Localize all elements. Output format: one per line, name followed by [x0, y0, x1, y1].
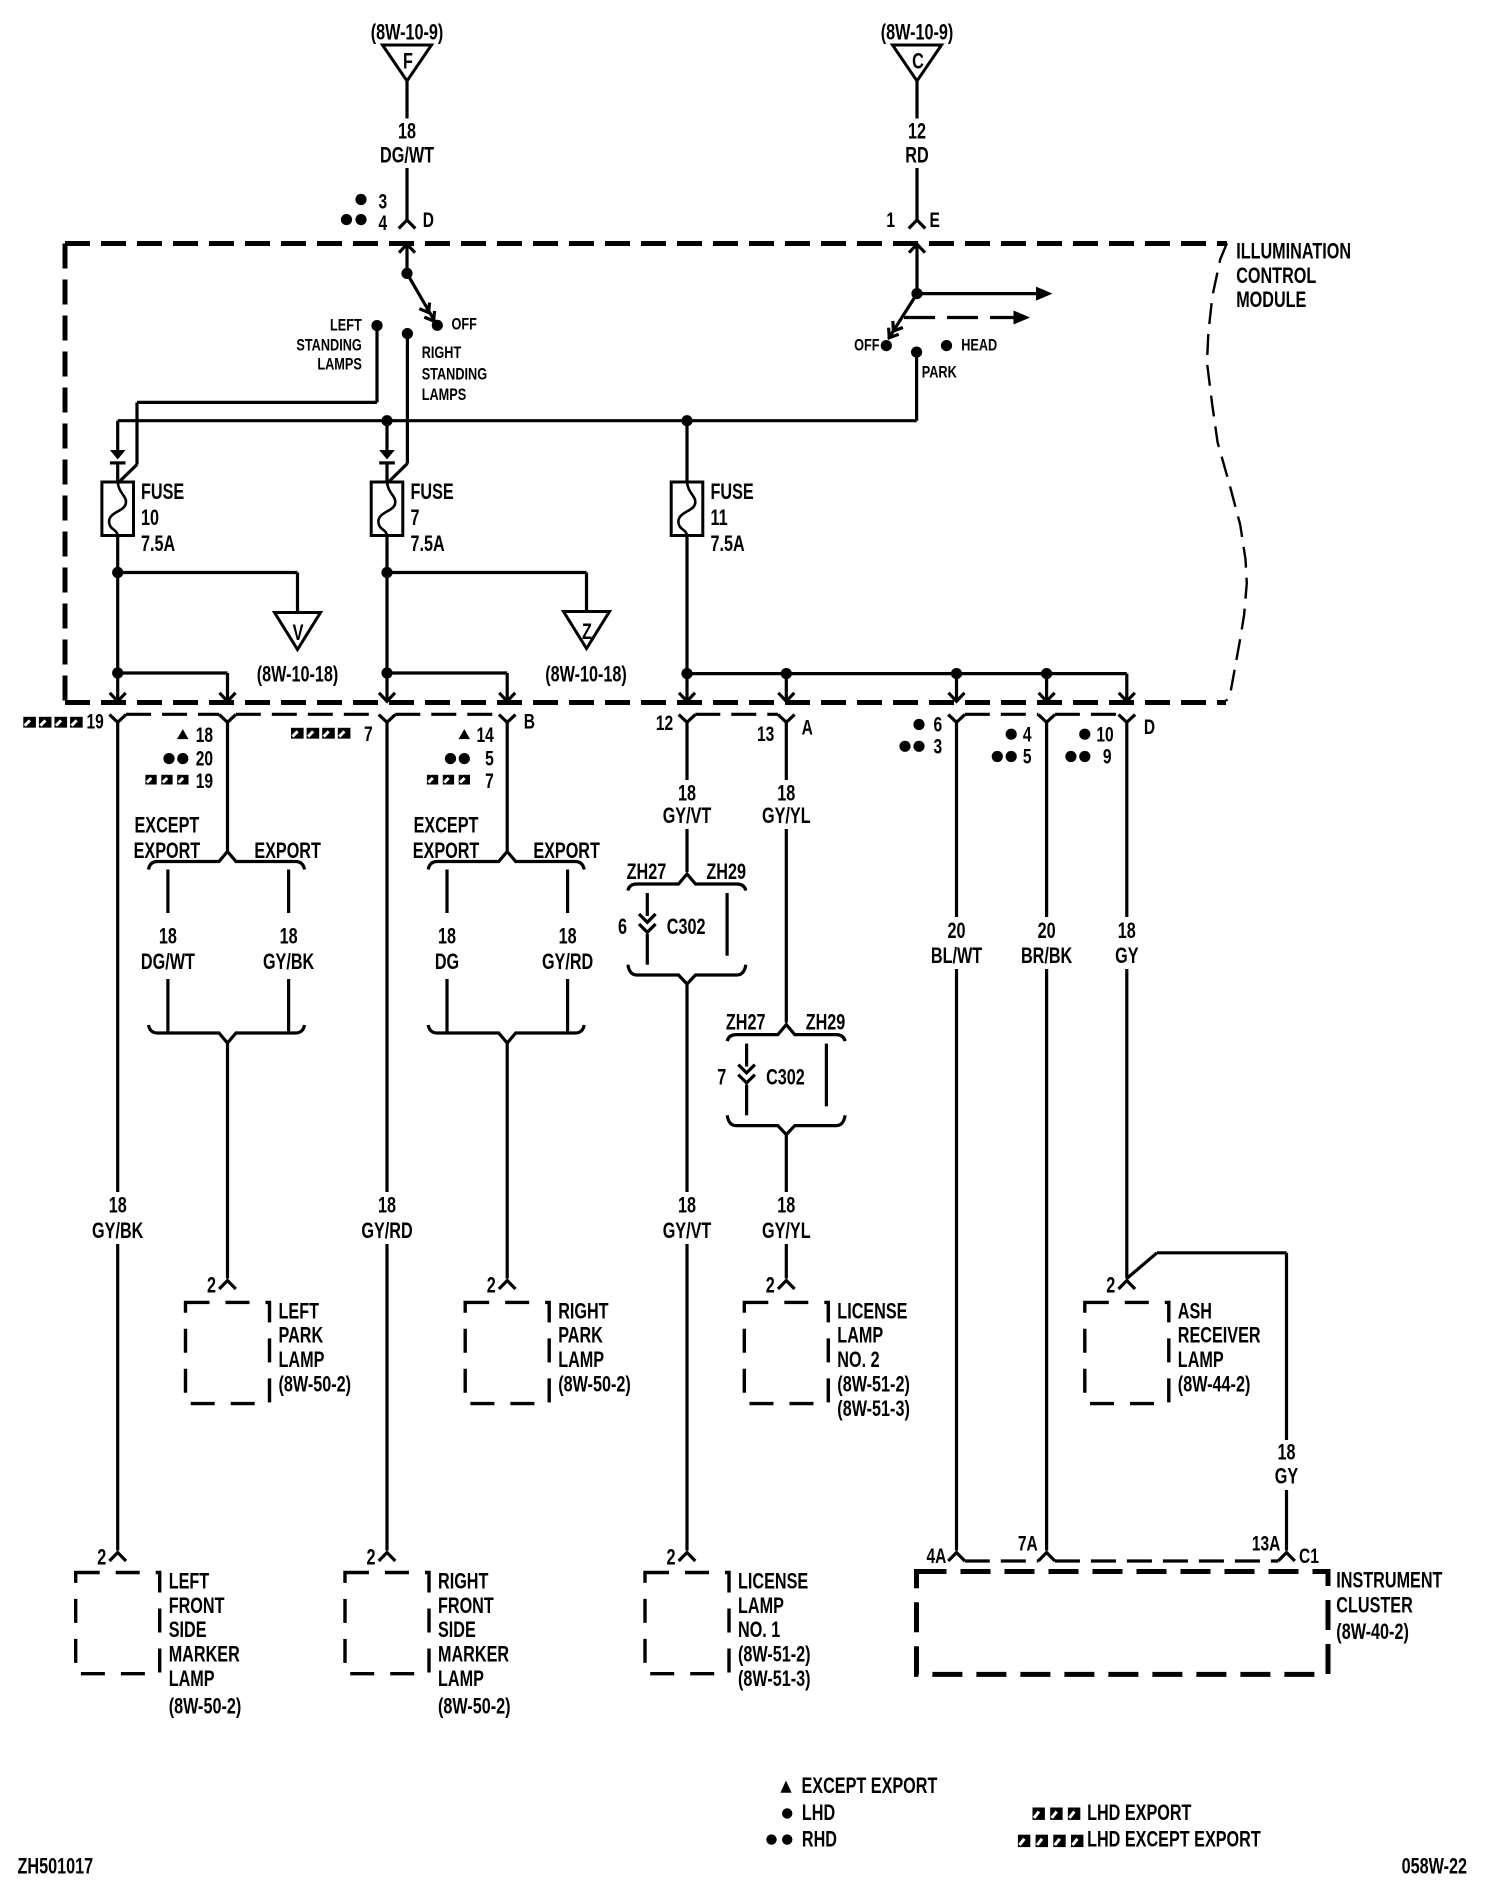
branch to connector Z: [387, 573, 587, 612]
label 20 BR/BK: [1021, 918, 1072, 968]
svg-text:18: 18: [1118, 918, 1136, 943]
svg-text:18: 18: [196, 723, 213, 747]
svg-text:PARK: PARK: [922, 364, 957, 382]
branch wire to export arrow (right): [387, 671, 507, 674]
wire DG/WT to connector D: [405, 168, 408, 219]
svg-text:18: 18: [1277, 1440, 1295, 1465]
wire 12 label to brace: [685, 829, 688, 872]
svg-text:CONTROL: CONTROL: [1236, 263, 1316, 288]
legend LHD: [782, 1800, 835, 1825]
arrow out BL/WT: [949, 674, 965, 702]
ZH27 wire C302-2: [745, 1044, 748, 1067]
cluster bar 4A-7A: [965, 1559, 1039, 1562]
EXCEPT EXPORT label 2 (right): [413, 838, 480, 863]
svg-text:EXCEPT EXPORT: EXCEPT EXPORT: [802, 1773, 938, 1798]
C302 merge brace C302-2: [727, 1115, 845, 1134]
svg-text:HEAD: HEAD: [961, 337, 997, 355]
OFF contact (left): [432, 316, 477, 334]
svg-text:GY/BK: GY/BK: [92, 1219, 143, 1244]
connector 7A: [1018, 1531, 1055, 1561]
connector bar BLWT to BRBK: [965, 713, 1039, 716]
pin 2 connector LICENSE LAMP NO 2: [766, 1273, 795, 1298]
branch to connector V: [118, 573, 298, 613]
symbols 10 / 9 (GY): [1065, 722, 1113, 768]
ZH27 label C302-2: [726, 1010, 766, 1035]
label 18 GY (D wire): [1115, 918, 1138, 968]
svg-text:ASH: ASH: [1178, 1299, 1212, 1324]
connector C from (8W-10-9): [881, 20, 954, 81]
LEFT STANDING LAMPS contact: [296, 317, 382, 374]
legend RHD: [766, 1827, 837, 1852]
EXCEPT EXPORT label (right): [414, 813, 479, 838]
svg-text:2: 2: [207, 1273, 216, 1298]
connector V to (8W-10-18): [257, 613, 339, 688]
svg-text:2: 2: [366, 1545, 375, 1570]
EXCEPT EXPORT label (left): [135, 813, 200, 838]
fuse 10 7.5A: [102, 479, 184, 556]
svg-text:OFF: OFF: [452, 316, 477, 334]
interior bus to D: [687, 672, 1127, 675]
arrow out export-right: [499, 673, 515, 701]
wire B down upper: [385, 722, 388, 1192]
svg-text:058W-22: 058W-22: [1402, 1854, 1467, 1879]
svg-text:ZH29: ZH29: [706, 859, 746, 884]
svg-text:EXPORT: EXPORT: [254, 838, 321, 863]
svg-text:DG/WT: DG/WT: [141, 950, 195, 975]
except-export wire upper (left): [166, 870, 169, 914]
wire label 12 RD: [905, 119, 928, 168]
C302 splice arrow C302-1: [639, 914, 656, 932]
arrow out B: [379, 673, 395, 701]
wire A down to label: [785, 722, 788, 780]
svg-text:EXCEPT: EXCEPT: [414, 813, 479, 838]
svg-text:(8W-51-3): (8W-51-3): [837, 1396, 910, 1421]
svg-text:LAMP: LAMP: [169, 1667, 215, 1692]
arrow out BR/BK: [1039, 674, 1055, 702]
connector 13A: [1252, 1531, 1295, 1561]
svg-text:12: 12: [656, 711, 673, 735]
svg-text:(8W-10-18): (8W-10-18): [545, 662, 627, 687]
split brace (left): [149, 852, 305, 870]
connector A: [778, 715, 813, 739]
switch pivot node left: [401, 268, 412, 279]
connector BL/WT row2: [948, 715, 965, 723]
label 18 GY/BK: [92, 1193, 143, 1244]
svg-text:C302: C302: [766, 1065, 805, 1090]
svg-text:LHD: LHD: [802, 1800, 835, 1825]
arrow out D: [1119, 674, 1135, 702]
svg-text:18: 18: [398, 119, 416, 144]
svg-text:FUSE: FUSE: [411, 479, 454, 504]
component reference ASH RECEIVER LAMP: [1178, 1372, 1251, 1397]
svg-text:LAMP: LAMP: [837, 1323, 883, 1348]
ZH29 wire C302-2: [825, 1044, 828, 1107]
legend except export: [780, 1773, 937, 1798]
svg-text:ILLUMINATION: ILLUMINATION: [1236, 239, 1351, 264]
svg-text:2: 2: [487, 1273, 496, 1298]
C302 pin number C302-1: [618, 914, 627, 939]
label 18 GY/YL lower: [762, 1193, 811, 1244]
svg-text:20: 20: [947, 918, 965, 943]
wire RD to connector E: [915, 168, 918, 219]
svg-text:RHD: RHD: [802, 1827, 837, 1852]
svg-text:GY/BK: GY/BK: [263, 950, 314, 975]
svg-text:(8W-51-2): (8W-51-2): [837, 1372, 910, 1397]
wire BL/WT upper: [955, 722, 958, 917]
svg-text:4: 4: [1023, 722, 1032, 746]
instrument cluster label: [1336, 1568, 1442, 1645]
component box ASH RECEIVER LAMP: [1085, 1302, 1169, 1403]
svg-text:ZH27: ZH27: [726, 1010, 766, 1035]
EXCEPT EXPORT label 2 (left): [134, 838, 201, 863]
wire export connector down (left): [226, 722, 229, 851]
pin 2 connector RIGHT PARK LAMP: [487, 1273, 516, 1298]
svg-text:7A: 7A: [1018, 1531, 1038, 1555]
illumination control module top border: [65, 241, 1227, 246]
svg-text:MARKER: MARKER: [438, 1642, 509, 1667]
svg-text:B: B: [524, 709, 535, 733]
svg-text:7.5A: 7.5A: [141, 532, 175, 557]
illumination control module label: [1236, 239, 1351, 313]
component reference LICENSE LAMP NO 2: [837, 1372, 910, 1422]
svg-text:2: 2: [97, 1545, 106, 1570]
svg-text:1: 1: [886, 208, 895, 232]
ZH27 wire lower C302-2: [745, 1085, 748, 1116]
connector bar BRBK to D: [1055, 713, 1119, 716]
svg-text:(8W-10-9): (8W-10-9): [371, 20, 444, 45]
connector bar 19 to export: [126, 713, 219, 716]
svg-text:7.5A: 7.5A: [711, 532, 745, 557]
wire B down lower: [385, 1244, 388, 1551]
svg-text:9: 9: [1103, 744, 1112, 768]
svg-text:13A: 13A: [1252, 1531, 1281, 1555]
label 20 BL/WT: [931, 918, 982, 968]
symbols LHD EXPORT 7: [291, 722, 373, 746]
svg-text:GY/VT: GY/VT: [663, 1219, 712, 1244]
svg-text:18: 18: [559, 924, 577, 949]
svg-text:7.5A: 7.5A: [411, 532, 445, 557]
svg-text:DG/WT: DG/WT: [380, 143, 434, 168]
wire 12 down to label: [685, 722, 688, 780]
svg-text:LAMP: LAMP: [1178, 1348, 1224, 1373]
merge brace (right): [428, 1025, 584, 1043]
cluster bar 7A-13A: [1055, 1559, 1278, 1562]
connector BR/BK row2: [1038, 715, 1055, 723]
wire GYYL to license lamp 2: [785, 1244, 788, 1279]
PARK contact: [911, 347, 957, 382]
svg-text:(8W-50-2): (8W-50-2): [169, 1694, 242, 1719]
fuse 7 7.5A: [371, 479, 453, 556]
wire RIGHT standing lamps to fuse 7: [389, 334, 407, 482]
wire fuse 11 output: [685, 536, 688, 674]
svg-text:C1: C1: [1299, 1544, 1319, 1568]
svg-text:GY: GY: [1115, 944, 1138, 969]
component box RIGHT PARK LAMP: [465, 1302, 549, 1403]
svg-text:V: V: [293, 620, 304, 645]
ash loop down lower: [1285, 1490, 1288, 1551]
ash loop down upper: [1285, 1253, 1288, 1440]
ZH27 wire C302-1: [646, 893, 649, 916]
wire GYVT to license lamp 1: [685, 1244, 688, 1551]
svg-text:SIDE: SIDE: [169, 1618, 207, 1643]
label 18 GY/RD: [361, 1193, 412, 1244]
svg-text:GY/YL: GY/YL: [762, 803, 811, 828]
export wire upper (right): [566, 870, 569, 914]
EXPORT label (left): [254, 838, 321, 863]
svg-text:18: 18: [159, 924, 177, 949]
component reference LEFT PARK LAMP: [279, 1372, 352, 1397]
component name LICENSE LAMP NO 2: [837, 1299, 907, 1373]
svg-text:ZH29: ZH29: [806, 1010, 846, 1035]
component name LICENSE LAMP NO 1: [738, 1569, 808, 1643]
arrow out 19: [110, 673, 126, 701]
svg-text:18: 18: [109, 1193, 127, 1218]
svg-text:(8W-10-18): (8W-10-18): [257, 662, 339, 687]
illumination control module left border: [63, 244, 68, 703]
component box RIGHT FRONT SIDE MARKER LAMP: [345, 1573, 429, 1674]
component reference RIGHT FRONT SIDE MARKER LAMP: [438, 1694, 511, 1719]
svg-text:12: 12: [908, 119, 926, 144]
connector export-left: [219, 715, 236, 723]
except-export wire upper (right): [445, 870, 448, 914]
legend LHD EXCEPT EXPORT: [1018, 1827, 1261, 1852]
svg-text:(8W-51-3): (8W-51-3): [738, 1667, 811, 1692]
wire bus to fuse 11: [685, 421, 688, 483]
svg-text:RIGHT: RIGHT: [558, 1299, 608, 1324]
component name RIGHT PARK LAMP: [558, 1299, 608, 1373]
ZH27/ZH29 brace C302-1: [628, 874, 746, 891]
svg-text:GY: GY: [1275, 1464, 1298, 1489]
wire GYVT below C302: [685, 984, 688, 1192]
ash loop horizontal: [1157, 1251, 1287, 1254]
svg-text:GY/RD: GY/RD: [542, 950, 593, 975]
connector D row2: [1119, 715, 1156, 739]
connector bar export to B: [236, 713, 379, 716]
svg-text:20: 20: [196, 746, 213, 770]
svg-text:LAMP: LAMP: [738, 1593, 784, 1618]
except-export wire lower (right): [445, 979, 448, 1033]
component reference LICENSE LAMP NO 1: [738, 1642, 811, 1692]
arrow out A: [778, 674, 794, 702]
merged wire down (right): [506, 1043, 509, 1279]
svg-text:5: 5: [1023, 744, 1032, 768]
symbols 6 / 3 (BL/WT): [899, 712, 942, 758]
C302 label C302-2: [766, 1065, 805, 1090]
svg-text:11: 11: [711, 506, 728, 531]
wire fuse 7 output: [385, 536, 388, 674]
svg-text:PARK: PARK: [558, 1323, 603, 1348]
label 18 GY/VT upper: [663, 781, 712, 829]
svg-text:18: 18: [678, 1193, 696, 1218]
svg-text:DG: DG: [435, 950, 459, 975]
svg-text:(8W-40-2): (8W-40-2): [1336, 1620, 1409, 1645]
component box LICENSE LAMP NO 1: [645, 1573, 729, 1674]
wire BL/WT lower: [955, 969, 958, 1551]
illumination control module bottom border: [65, 700, 1226, 705]
svg-text:GY/VT: GY/VT: [663, 803, 712, 828]
svg-text:FRONT: FRONT: [438, 1593, 494, 1618]
svg-text:20: 20: [1038, 918, 1056, 943]
EXPORT label (right): [533, 838, 600, 863]
svg-text:GY/YL: GY/YL: [762, 1219, 811, 1244]
svg-text:A: A: [802, 715, 813, 739]
label 18 GY/YL upper: [762, 781, 811, 829]
connector 4A: [927, 1544, 965, 1568]
wire GYYL below C302: [785, 1134, 788, 1192]
ZH27 wire lower C302-1: [646, 934, 649, 965]
label 18 GY (loop): [1275, 1440, 1298, 1489]
svg-text:6: 6: [618, 914, 627, 939]
split brace (right): [428, 852, 584, 870]
svg-text:CLUSTER: CLUSTER: [1336, 1593, 1412, 1618]
component name LEFT FRONT SIDE MARKER LAMP: [169, 1569, 240, 1692]
component name LEFT PARK LAMP: [279, 1299, 325, 1373]
wire A label to brace: [785, 829, 788, 1023]
svg-text:LICENSE: LICENSE: [837, 1299, 907, 1324]
svg-text:2: 2: [1106, 1273, 1115, 1298]
ZH29 wire C302-1: [725, 893, 728, 956]
switch arrow into module at E: [909, 244, 925, 293]
ZH27 label C302-1: [627, 859, 667, 884]
pin 1 label: [886, 208, 895, 232]
arrow out export-left: [220, 673, 236, 701]
svg-text:7: 7: [485, 768, 494, 792]
svg-text:RIGHT: RIGHT: [438, 1569, 488, 1594]
connector export-B: [499, 709, 535, 733]
legend LHD EXPORT: [1033, 1800, 1192, 1825]
svg-text:LAMP: LAMP: [558, 1348, 604, 1373]
dashed arrow right (park feed): [904, 311, 1030, 325]
solid arrow right (head feed): [917, 287, 1053, 301]
export wire lower (right): [566, 979, 569, 1033]
component reference LEFT FRONT SIDE MARKER LAMP: [169, 1694, 242, 1719]
component name ASH RECEIVER LAMP: [1178, 1299, 1261, 1373]
diode into fuse 7: [379, 421, 395, 483]
ZH27/ZH29 brace C302-2: [727, 1025, 845, 1042]
HEAD contact: [941, 337, 997, 355]
svg-text:5: 5: [485, 746, 494, 770]
svg-text:18: 18: [678, 781, 696, 806]
ZH29 label C302-1: [706, 859, 746, 884]
connector 12: [656, 711, 695, 735]
svg-text:RD: RD: [905, 143, 928, 168]
component box LEFT FRONT SIDE MARKER LAMP: [76, 1573, 160, 1674]
svg-text:18: 18: [777, 1193, 795, 1218]
wire label 18 DG/WT: [380, 119, 434, 168]
ash loop diagonal: [1127, 1253, 1157, 1279]
node fuse7 to Z: [381, 567, 392, 578]
sheet code 058W-22: [1402, 1854, 1467, 1879]
svg-text:10: 10: [1096, 722, 1113, 746]
connector B main: [379, 715, 396, 723]
svg-text:Z: Z: [582, 619, 592, 644]
connector D: [399, 208, 434, 232]
svg-text:BL/WT: BL/WT: [931, 944, 982, 969]
svg-text:10: 10: [141, 506, 159, 531]
svg-text:ZH501017: ZH501017: [18, 1854, 94, 1879]
node fuse11 bus: [681, 668, 692, 679]
switch arm to OFF (left): [407, 273, 436, 322]
svg-text:C: C: [912, 49, 924, 74]
svg-text:MODULE: MODULE: [1236, 288, 1306, 313]
svg-text:LHD EXPORT: LHD EXPORT: [1087, 1800, 1191, 1825]
svg-text:RIGHT: RIGHT: [422, 345, 462, 363]
pin 2 connector ASH RECEIVER LAMP: [1106, 1273, 1135, 1298]
wire F to splice D: [405, 81, 408, 119]
component reference RIGHT PARK LAMP: [558, 1372, 631, 1397]
svg-text:19: 19: [87, 709, 104, 733]
svg-text:PARK: PARK: [279, 1323, 324, 1348]
instrument cluster box: [917, 1572, 1329, 1675]
svg-text:2: 2: [766, 1273, 775, 1298]
node fuse10 to V: [112, 567, 123, 578]
svg-text:D: D: [423, 208, 434, 232]
svg-text:INSTRUMENT: INSTRUMENT: [1336, 1568, 1442, 1593]
svg-text:6: 6: [934, 712, 943, 736]
except-export wire label (left): [141, 924, 195, 975]
pin 2 connector LICENSE LAMP NO 1: [666, 1545, 695, 1570]
RHD symbol dots with 4: [341, 210, 388, 234]
svg-text:14: 14: [477, 723, 495, 747]
svg-text:LICENSE: LICENSE: [738, 1569, 808, 1594]
svg-text:SIDE: SIDE: [438, 1618, 476, 1643]
svg-text:7: 7: [411, 506, 420, 531]
svg-text:RECEIVER: RECEIVER: [1178, 1323, 1261, 1348]
svg-text:(8W-44-2): (8W-44-2): [1178, 1372, 1251, 1397]
branch wire to export arrow (left): [118, 671, 228, 674]
svg-text:LAMPS: LAMPS: [422, 387, 467, 405]
export wire lower (left): [287, 979, 290, 1033]
svg-text:18: 18: [438, 924, 456, 949]
svg-text:(8W-50-2): (8W-50-2): [279, 1372, 352, 1397]
except-export wire label (right): [435, 924, 459, 975]
svg-text:LAMPS: LAMPS: [317, 356, 362, 374]
svg-text:18: 18: [280, 924, 298, 949]
arrow out 12: [679, 674, 695, 702]
svg-text:F: F: [403, 49, 413, 74]
svg-text:LHD EXCEPT EXPORT: LHD EXCEPT EXPORT: [1087, 1827, 1261, 1852]
pin 2 connector LEFT FRONT SIDE MARKER LAMP: [97, 1545, 126, 1570]
export wire label (left): [263, 924, 314, 975]
connector bar 12 to A: [695, 713, 778, 716]
svg-text:7: 7: [364, 722, 373, 746]
connector F from (8W-10-9): [371, 20, 444, 81]
svg-text:OFF: OFF: [854, 337, 879, 355]
export wire label (right): [542, 924, 593, 975]
merged wire down (left): [226, 1043, 229, 1279]
RIGHT STANDING LAMPS contact: [402, 328, 487, 404]
wire D down lower: [1125, 969, 1128, 1279]
ZH29 label C302-2: [806, 1010, 846, 1035]
wire BR/BK lower: [1045, 969, 1048, 1551]
park feed bus: [118, 419, 917, 422]
connector 19: [23, 709, 126, 733]
switch pivot node right: [911, 288, 922, 299]
svg-text:ZH27: ZH27: [627, 859, 667, 884]
svg-text:LAMP: LAMP: [438, 1667, 484, 1692]
C302 pin number C302-2: [717, 1065, 726, 1090]
component box LICENSE LAMP NO 2: [744, 1302, 828, 1403]
connector C1 label: [1299, 1544, 1319, 1568]
wire 19 down lower: [116, 1244, 119, 1551]
svg-text:(8W-50-2): (8W-50-2): [438, 1694, 511, 1719]
svg-text:E: E: [930, 208, 940, 232]
bus junction A: [781, 668, 792, 679]
svg-text:7: 7: [717, 1065, 726, 1090]
junction fuse7 feed: [381, 415, 392, 426]
svg-text:NO. 1: NO. 1: [738, 1618, 780, 1643]
connector bar B: [395, 713, 499, 716]
